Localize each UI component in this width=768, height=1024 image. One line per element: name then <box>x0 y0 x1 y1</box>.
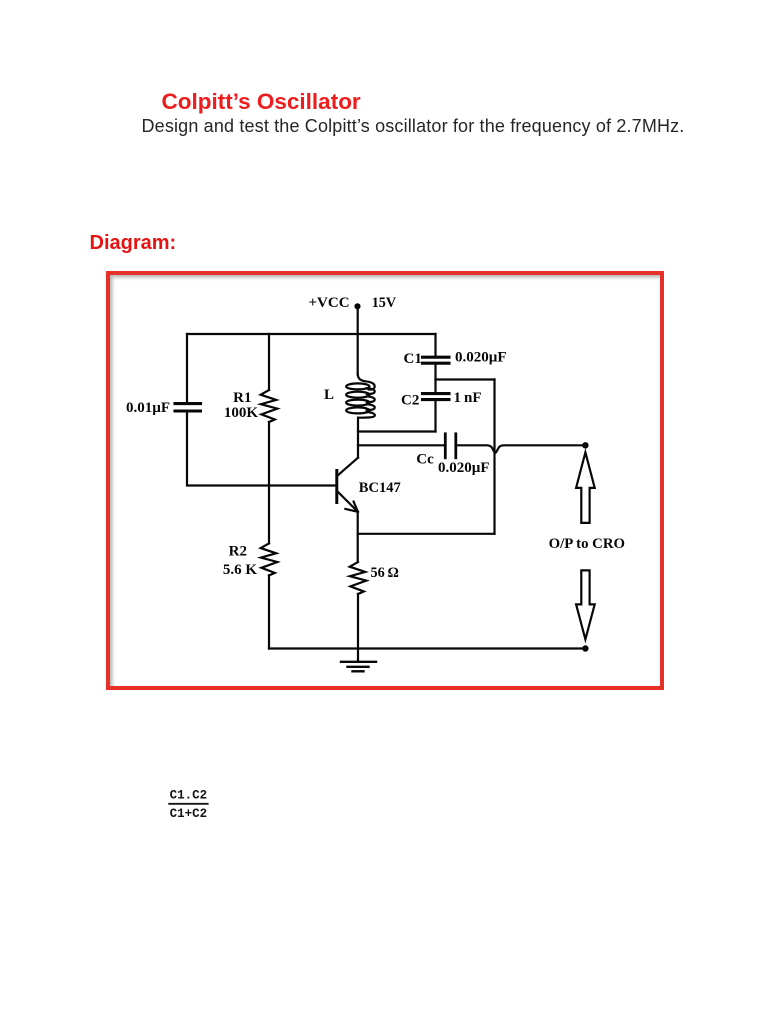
svg-text:C1: C1 <box>404 351 422 367</box>
svg-text:0.020µF: 0.020µF <box>455 349 507 365</box>
svg-text:5.6 K: 5.6 K <box>223 562 258 578</box>
svg-text:C2: C2 <box>401 393 419 409</box>
inductor L coil <box>346 374 375 418</box>
capacitor 0.01uF <box>175 404 201 411</box>
wire bottom rail <box>269 647 585 649</box>
svg-text:O/P to CRO: O/P to CRO <box>549 536 625 552</box>
wire output right with hop over feedback <box>457 445 585 453</box>
wire emitter vertical <box>357 512 359 562</box>
svg-text:R1: R1 <box>233 390 251 406</box>
capacitor C1 <box>423 357 450 363</box>
svg-text:+VCC: +VCC <box>309 295 350 311</box>
subtitle <box>142 117 685 135</box>
resistor RE 56 ohm <box>350 562 367 594</box>
resistor R2 <box>261 543 278 575</box>
wire between C1 and C2 <box>434 363 436 393</box>
wire emitter lower <box>357 594 359 662</box>
wire collector output left <box>358 444 444 446</box>
wire top supply rail <box>187 333 436 335</box>
svg-text:0.01µF: 0.01µF <box>126 400 170 416</box>
svg-text:C1+C2: C1+C2 <box>170 807 208 821</box>
arrow output up <box>576 452 595 523</box>
capacitor Cc <box>445 434 456 458</box>
svg-text:56 Ω: 56 Ω <box>371 565 399 581</box>
wire feedback vertical <box>493 380 495 534</box>
wire bias divider vertical upper <box>268 334 270 390</box>
resistor R1 <box>261 390 278 422</box>
capacitor C2 <box>423 394 450 400</box>
node output bottom dot <box>582 645 588 651</box>
svg-text:R2: R2 <box>229 544 247 560</box>
svg-text:15V: 15V <box>372 295 397 311</box>
node output top dot <box>582 442 588 448</box>
transistor Q1 emitter diagonal with arrow <box>338 492 358 512</box>
wire C2 return <box>358 430 436 432</box>
svg-text:1 nF: 1 nF <box>454 390 482 406</box>
red frame around circuit <box>106 271 665 690</box>
wire bias divider vertical lower <box>268 575 270 648</box>
svg-text:BC147: BC147 <box>359 480 401 496</box>
transistor Q1 base bar <box>335 471 338 503</box>
svg-text:Cc: Cc <box>416 452 434 468</box>
ground <box>341 662 376 672</box>
wire left branch upper <box>186 334 188 402</box>
arrow output down <box>576 570 595 639</box>
svg-text:C1.C2: C1.C2 <box>170 789 208 803</box>
wire collector vertical <box>357 418 359 458</box>
svg-text:0.020µF: 0.020µF <box>438 460 490 476</box>
formula fraction bar <box>169 803 208 805</box>
wire emitter to feedback <box>358 533 495 535</box>
wire VCC stem <box>357 306 359 375</box>
node VCC dot <box>354 303 360 309</box>
wire C1C2 junction to feedback <box>436 378 495 380</box>
heading Diagram: <box>90 233 177 253</box>
svg-text:100K: 100K <box>224 405 259 421</box>
title: Colpitt's Oscillator <box>162 91 361 114</box>
wire left branch lower + base wire <box>187 411 336 486</box>
wire right branch top <box>434 334 436 356</box>
transistor Q1 collector diagonal <box>338 458 358 476</box>
wire below C2 <box>434 400 436 432</box>
wire bias divider vertical middle <box>268 422 270 543</box>
svg-text:L: L <box>324 387 334 403</box>
